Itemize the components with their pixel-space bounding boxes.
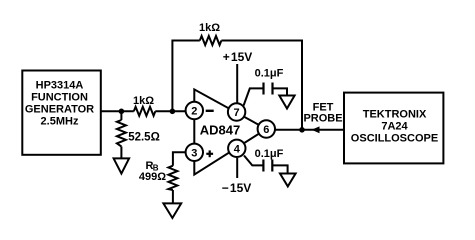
svg-text:OSCILLOSCOPE: OSCILLOSCOPE: [351, 133, 438, 145]
svg-text:−15V: −15V: [222, 181, 252, 195]
svg-text:1kΩ: 1kΩ: [199, 22, 220, 34]
svg-text:0.1μF: 0.1μF: [255, 68, 284, 80]
svg-text:1kΩ: 1kΩ: [133, 95, 154, 107]
svg-text:3: 3: [191, 147, 197, 159]
svg-text:4: 4: [234, 143, 241, 155]
svg-text:TEKTRONIX: TEKTRONIX: [363, 109, 427, 121]
svg-text:6: 6: [263, 124, 269, 136]
svg-text:52.5Ω: 52.5Ω: [128, 132, 160, 144]
svg-text:+15V: +15V: [223, 50, 253, 64]
svg-text:FUNCTION: FUNCTION: [31, 92, 88, 104]
svg-text:GENERATOR: GENERATOR: [25, 104, 94, 116]
svg-text:2.5MHz: 2.5MHz: [41, 116, 79, 128]
svg-text:7: 7: [234, 107, 240, 119]
svg-text:2: 2: [191, 106, 197, 118]
svg-text:499Ω: 499Ω: [139, 171, 166, 183]
svg-text:AD847: AD847: [200, 123, 240, 138]
svg-text:0.1μF: 0.1μF: [255, 148, 284, 160]
svg-text:HP3314A: HP3314A: [36, 80, 84, 92]
svg-text:7A24: 7A24: [381, 121, 408, 133]
svg-text:PROBE: PROBE: [303, 113, 342, 125]
